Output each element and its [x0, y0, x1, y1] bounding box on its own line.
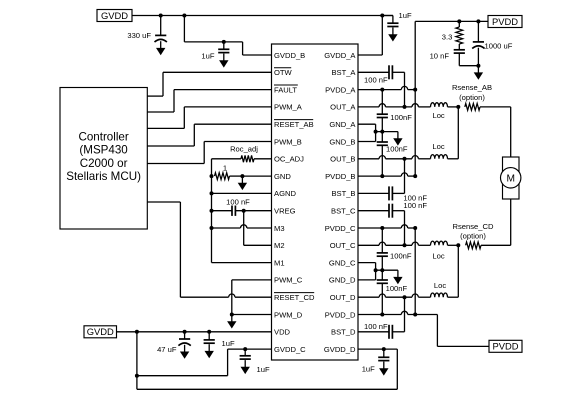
junction OUT_A/BST_A	[403, 105, 407, 109]
wire BST_A to OUT_A	[392, 72, 404, 107]
wire PVDD rail (top, to PVDD_B)	[414, 21, 416, 176]
terminal PVDD (bottom right)	[489, 340, 522, 352]
wire motor bottom	[510, 199, 512, 245]
capacitor 47uF (polarized)	[178, 339, 190, 346]
wire join C/D	[457, 245, 459, 297]
junction GND tie	[374, 130, 378, 134]
wire VDD rail	[117, 331, 272, 333]
svg-text:AGND: AGND	[274, 189, 296, 198]
svg-text:OUT_B: OUT_B	[330, 155, 355, 164]
svg-text:GND_B: GND_B	[329, 137, 355, 146]
pin label GVDD_C	[274, 345, 306, 354]
junction chain mid CD	[380, 268, 384, 272]
capacitor 100nF (PVDD_C-GND)	[377, 253, 388, 256]
capacitor 1uF (GVDD_A)	[387, 23, 398, 26]
pin label VDD	[274, 328, 291, 337]
wire GND_B pin	[358, 141, 376, 143]
junction PWM_C/PWM_D	[230, 313, 234, 317]
pin label PWM_A	[274, 103, 303, 112]
junction GVDD/GVDD_A riser	[380, 14, 384, 18]
svg-text:PWM_B: PWM_B	[274, 137, 302, 146]
wire OUT_B pin (hops)	[358, 156, 431, 159]
junction OUT_C/OUT_D	[456, 243, 460, 247]
wire PVDD_A pin (hop)	[358, 86, 415, 89]
wire join A/B	[457, 107, 459, 159]
svg-text:100nF: 100nF	[386, 144, 408, 153]
svg-text:PVDD: PVDD	[492, 341, 518, 352]
junction PVDD/1000uF	[476, 19, 480, 23]
svg-text:100nF: 100nF	[390, 113, 412, 122]
svg-text:Stellaris MCU): Stellaris MCU)	[66, 170, 141, 183]
svg-text:Loc: Loc	[432, 111, 444, 120]
inductor Loc (B)	[431, 155, 448, 159]
wire BST_C pin	[358, 210, 389, 212]
wire GVDD_D bottom route	[137, 388, 397, 390]
junction GVDD_C branch	[135, 374, 139, 378]
ground below 47uF	[180, 345, 189, 359]
wire 1000uF stem	[477, 21, 479, 42]
junction PVDD_A/rail	[413, 88, 417, 92]
wire GND_A pin	[358, 123, 376, 125]
svg-text:100 nF: 100 nF	[403, 201, 427, 210]
svg-text:OUT_A: OUT_A	[330, 103, 356, 112]
svg-text:GVDD_B: GVDD_B	[274, 51, 305, 60]
wire M3 pin (hop)	[212, 225, 272, 228]
svg-text:1: 1	[223, 163, 227, 172]
wire 1uF stem	[383, 349, 385, 357]
junction PVDD_B/chain	[380, 174, 384, 178]
svg-text:PVDD_B: PVDD_B	[325, 172, 355, 181]
junction chain mid AB	[380, 130, 384, 134]
wire BST_A pin	[358, 71, 389, 73]
ground below 1uF (GVDD_A)	[388, 28, 397, 42]
capacitor 100nF (BST_B)	[389, 186, 392, 200]
junction 1uF bypass	[222, 40, 226, 44]
wire GVDD feed vertical	[136, 332, 138, 390]
wire PVDD_D pin (hop)	[358, 311, 437, 314]
capacitor 1uF (GVDD_B bypass)	[218, 49, 229, 52]
junction rail/VREG	[210, 209, 214, 213]
svg-text:GND_D: GND_D	[329, 276, 356, 285]
wire down to GVDD_B	[242, 42, 244, 55]
svg-text:FAULT: FAULT	[274, 85, 297, 94]
terminal GVDD (bottom left)	[84, 326, 117, 338]
capacitor 100nF (PVDD_B-GND)	[377, 142, 388, 145]
wire GND_C pin	[358, 262, 376, 264]
ground at PWM_C/D	[227, 315, 236, 329]
wire PWM_D	[232, 314, 272, 316]
svg-text:(option): (option)	[460, 232, 486, 241]
wire RESET_AB from controller	[147, 124, 271, 146]
capacitor 100nF (BST_D)	[389, 325, 392, 339]
svg-text:GVDD_C: GVDD_C	[274, 345, 306, 354]
svg-text:1uF: 1uF	[222, 339, 235, 348]
svg-text:1uF: 1uF	[257, 365, 270, 374]
svg-text:GVDD_D: GVDD_D	[324, 345, 356, 354]
capacitor 330uF (polarized)	[155, 35, 167, 42]
svg-text:VREG: VREG	[274, 207, 296, 216]
ground below 1uF (VDD)	[205, 344, 214, 358]
junction GVDD branch	[182, 14, 186, 18]
svg-text:Rsense_AB: Rsense_AB	[452, 83, 492, 92]
svg-text:M: M	[506, 174, 515, 185]
ground at GND pin	[238, 176, 247, 190]
wire OUT_C to join	[448, 244, 459, 246]
svg-text:10 nF: 10 nF	[430, 52, 450, 61]
capacitor 1uF (VDD)	[204, 340, 215, 343]
wire OUT_D to join	[448, 296, 459, 298]
pin label VREG	[274, 207, 296, 216]
svg-text:1uF: 1uF	[362, 365, 375, 374]
ground below 1uF	[219, 54, 228, 68]
capacitor 10nF	[454, 50, 465, 53]
junction OUT_A/OUT_B	[456, 105, 460, 109]
wire Rsense_CD to motor	[481, 244, 511, 246]
wire GVDD_C pin	[228, 348, 272, 350]
pin label FAULT	[274, 85, 298, 94]
svg-text:Loc: Loc	[432, 142, 444, 151]
wire PVDD rail (bottom, PVDD_C to PVDD_D)	[414, 228, 416, 315]
wire 330uF stem	[160, 16, 162, 36]
resistor 1 ohm	[215, 173, 230, 180]
capacitor 100nF (PVDD_D-GND)	[377, 280, 388, 283]
pin label M2	[274, 241, 285, 250]
pin label M1	[274, 258, 285, 267]
junction VREG/M2	[242, 209, 246, 213]
svg-text:M2: M2	[274, 241, 285, 250]
ground below 330uF	[156, 41, 165, 55]
svg-text:PWM_A: PWM_A	[274, 103, 303, 112]
junction GVDD/330uF	[159, 14, 163, 18]
wire GND_D pin	[358, 279, 376, 281]
svg-text:RESET_CD: RESET_CD	[274, 293, 315, 302]
svg-text:GVDD: GVDD	[87, 326, 114, 337]
pin label RESET_AB	[274, 120, 314, 129]
wire RESET_CD from controller	[147, 202, 180, 297]
wire GND tie CD to ground	[376, 269, 398, 271]
wire M1 pin	[212, 262, 272, 264]
junction VDD/1uF	[207, 330, 211, 334]
junction GND/ground	[240, 174, 244, 178]
svg-text:PVDD_C: PVDD_C	[325, 224, 356, 233]
wire VREG left	[212, 210, 233, 212]
capacitor 1000uF (polarized)	[472, 42, 484, 49]
op-amp/driver IC U1 (DRV84xx)	[272, 44, 359, 360]
svg-text:M3: M3	[274, 224, 285, 233]
inductor Loc (D)	[431, 293, 448, 297]
wire OUT_A pin (hops)	[358, 104, 431, 107]
wire GVDD_A riser	[381, 16, 383, 56]
wire chain mid-c	[381, 256, 383, 280]
svg-text:Rsense_CD: Rsense_CD	[453, 222, 494, 231]
pin label OC_ADJ	[274, 155, 304, 164]
svg-text:100nF: 100nF	[386, 284, 408, 293]
svg-text:BST_B: BST_B	[331, 189, 355, 198]
junction rail/AGND	[210, 191, 214, 195]
svg-text:PVDD_D: PVDD_D	[325, 310, 356, 319]
wire GND_C-GND_D tie	[375, 263, 377, 280]
junction GVDD_D/1uF	[382, 347, 386, 351]
wire PWM_B from controller	[147, 142, 271, 164]
svg-text:BST_A: BST_A	[331, 68, 356, 77]
wire 1uF stub	[382, 16, 393, 24]
terminal PVDD (top right)	[488, 16, 522, 28]
capacitor 100nF (BST_C)	[389, 204, 392, 218]
wire snubber mid	[458, 44, 460, 50]
wire 47uF stem	[184, 332, 186, 339]
wire BST_C to OUT_C	[392, 211, 404, 246]
wire PVDD_C pin (hop)	[358, 225, 415, 228]
wire GVDD_D pin	[358, 348, 397, 350]
svg-text:100 nF: 100 nF	[364, 322, 388, 331]
capacitor 100nF (VREG)	[232, 206, 235, 216]
resistor 3.3	[456, 27, 463, 44]
wire chain PVDD_C-cap	[381, 228, 383, 253]
wire snubber bottom	[459, 53, 478, 66]
wire OC_ADJ right	[254, 158, 272, 160]
capacitor 1uF (GVDD_C)	[240, 356, 251, 359]
junction snubber/1000uF	[476, 64, 480, 68]
svg-text:Roc_adj: Roc_adj	[230, 145, 258, 154]
wire GND tie to ground	[376, 131, 398, 133]
wire 1uF stem	[244, 349, 246, 356]
wire Rsense_AB to motor	[480, 106, 511, 108]
ground (GND_C/GND_D)	[393, 270, 402, 284]
junction rail/M3	[210, 226, 214, 230]
wire FAULT from controller	[147, 90, 271, 112]
wire VREG right	[235, 210, 271, 212]
wire BST_B pin	[358, 192, 389, 194]
svg-text:PWM_D: PWM_D	[274, 310, 303, 319]
junction PVDD_C/chain	[380, 226, 384, 230]
wire AGND pin	[212, 192, 272, 194]
svg-text:Loc: Loc	[434, 281, 446, 290]
junction PVDD_B/rail	[413, 174, 417, 178]
wire 3.3 stem	[458, 21, 460, 27]
junction PVDD/3.3 snubber	[457, 19, 461, 23]
wire BST_D to OUT_D	[392, 297, 404, 332]
capacitor 1uF (GVDD_D)	[378, 357, 389, 360]
wire chain mid-d	[381, 283, 383, 314]
wire 1uF stem	[208, 332, 210, 340]
wire BST_D pin	[358, 331, 389, 333]
wire OUT_A to join	[448, 106, 459, 108]
inductor Loc (C)	[431, 241, 448, 245]
svg-text:GVDD: GVDD	[101, 10, 128, 21]
svg-text:BST_D: BST_D	[331, 328, 356, 337]
svg-text:VDD: VDD	[274, 328, 291, 337]
svg-text:BST_C: BST_C	[331, 207, 356, 216]
ground below 1uF (GVDD_D)	[379, 362, 388, 376]
ground below 1uF (GVDD_C)	[241, 360, 250, 374]
svg-text:100nF: 100nF	[390, 252, 412, 261]
svg-text:RESET_AB: RESET_AB	[274, 120, 314, 129]
junction PVDD_C/rail	[413, 226, 417, 230]
wire chain mid-b	[381, 145, 383, 176]
pin label AGND	[274, 189, 296, 198]
svg-text:(option): (option)	[459, 93, 485, 102]
capacitor 100nF (BST_A)	[389, 65, 392, 79]
svg-text:GND: GND	[274, 172, 291, 181]
wire GVDD_C branch	[137, 349, 228, 376]
wire PVDD top	[415, 20, 488, 22]
wire GVDD top rail	[132, 15, 393, 17]
wire PVDD_B pin (hop)	[358, 173, 415, 176]
svg-text:OTW: OTW	[274, 68, 293, 77]
motor M	[501, 157, 521, 199]
ground (GND_A/GND_B)	[393, 132, 402, 146]
junction PVDD_A/chain	[380, 88, 384, 92]
svg-text:C2000 or: C2000 or	[80, 157, 128, 170]
svg-text:PWM_C: PWM_C	[274, 276, 303, 285]
svg-text:100 nF: 100 nF	[364, 75, 388, 84]
svg-text:OUT_C: OUT_C	[330, 241, 356, 250]
wire OUT_B to join	[448, 158, 459, 160]
pin label RESET_CD	[274, 293, 315, 302]
wire GND_A-GND_B tie	[375, 124, 377, 141]
pin label M3	[274, 224, 285, 233]
junction OUT_B/BST_B	[403, 157, 407, 161]
inductor Loc (A)	[431, 103, 448, 107]
wire BST_B to OUT_B	[392, 159, 404, 194]
junction rail/GND	[210, 174, 214, 178]
wire GVDD_A pin	[358, 54, 382, 56]
svg-text:PVDD_A: PVDD_A	[325, 85, 356, 94]
terminal GVDD (top left)	[97, 10, 132, 22]
svg-text:3.3: 3.3	[442, 33, 453, 42]
wire M2 from VREG node	[244, 211, 272, 246]
wire 1000uF bottom	[477, 48, 479, 66]
junction GND tie CD	[374, 268, 378, 272]
svg-text:GND_A: GND_A	[329, 120, 356, 129]
svg-text:100 nF: 100 nF	[226, 197, 250, 206]
wire OUT_D pin (hops)	[358, 294, 431, 297]
wire PVDD bottom route	[437, 315, 489, 347]
pin label OTW	[274, 68, 293, 77]
pin label PWM_D	[274, 310, 303, 319]
svg-text:Controller: Controller	[78, 131, 128, 144]
svg-text:1uF: 1uF	[201, 52, 214, 61]
ground below 1000uF	[474, 66, 483, 80]
svg-text:330 uF: 330 uF	[127, 31, 151, 40]
resistor Rsense_CD	[466, 242, 481, 249]
junction PVDD_D/chain	[380, 313, 384, 317]
wire chain mid-a	[381, 118, 383, 143]
wire OUT_C pin (hops)	[358, 242, 431, 245]
wire motor top	[510, 107, 512, 157]
wire GND pin	[242, 175, 271, 177]
svg-text:OUT_D: OUT_D	[330, 293, 356, 302]
wire OTW from controller	[147, 72, 271, 96]
svg-text:OC_ADJ: OC_ADJ	[274, 155, 304, 164]
svg-text:(MSP430: (MSP430	[79, 144, 127, 157]
pin label GVDD_B	[274, 51, 305, 60]
wire 1uF stem	[223, 42, 225, 49]
wire left rail	[211, 159, 213, 263]
wire GVDD_D riser	[396, 349, 398, 389]
junction GVDD_C/1uF	[243, 347, 247, 351]
capacitor 100nF (PVDD_A-GND)	[377, 114, 388, 117]
pin label GND	[274, 172, 291, 181]
wire GVDD_B pin	[243, 54, 272, 56]
svg-text:PVDD: PVDD	[492, 16, 518, 27]
svg-text:1uF: 1uF	[399, 11, 412, 20]
wire OC_ADJ left	[212, 158, 242, 160]
wire RESET_CD pin (hop over PWM_C)	[180, 294, 271, 297]
svg-text:1000 uF: 1000 uF	[485, 42, 513, 51]
junction PVDD_D/rail	[413, 313, 417, 317]
svg-text:GND_C: GND_C	[329, 258, 356, 267]
wire GND mid	[230, 175, 243, 177]
wire GVDD branch vertical	[183, 16, 185, 42]
svg-text:GVDD_A: GVDD_A	[324, 51, 356, 60]
wire PWM_A from controller	[147, 107, 271, 128]
pin label PWM_B	[274, 137, 302, 146]
svg-text:M1: M1	[274, 258, 285, 267]
junction VDD/GVDD_C riser	[135, 330, 139, 334]
resistor Rsense_AB	[465, 104, 480, 111]
wire chain PVDD_A-cap	[381, 90, 383, 115]
svg-text:Loc: Loc	[432, 251, 444, 260]
wire GVDD branch horizontal	[184, 41, 242, 43]
controller block (MSP430 / C2000 / Stellaris MCU)	[60, 88, 147, 230]
junction OUT_D/BST_D	[403, 295, 407, 299]
svg-text:47 uF: 47 uF	[157, 345, 177, 354]
junction OUT_C/BST_C	[403, 243, 407, 247]
resistor Roc_adj	[241, 155, 254, 162]
wire PWM_C	[232, 280, 272, 315]
pin label PWM_C	[274, 276, 303, 285]
junction VDD/47uF	[183, 330, 187, 334]
